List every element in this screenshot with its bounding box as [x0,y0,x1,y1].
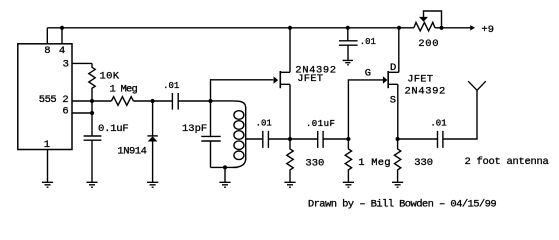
wire Q1 drain to rail [289,28,291,73]
wire cap to tank junction [178,100,210,102]
rheostat wiper arrow [424,11,442,28]
svg-text:1 Meg: 1 Meg [110,84,138,96]
svg-text:2: 2 [62,94,68,106]
wire antenna [443,90,477,139]
wire pin 4 to V+ rail [61,28,63,44]
svg-text:Drawn by – Bill Bowden – 04/15: Drawn by – Bill Bowden – 04/15/99 [308,199,496,211]
svg-text:1N914: 1N914 [117,146,146,158]
inductor L1 [211,101,246,108]
junction tank ground [223,165,227,169]
svg-text:13pF: 13pF [182,123,207,135]
+9 supply arrow [470,25,475,30]
svg-text:S: S [390,94,396,106]
resistor R3 330 [287,139,293,182]
svg-text:200: 200 [418,38,439,50]
ground (1N914) [147,182,158,187]
ground (bypass cap) [343,60,353,64]
wire V+ rail [47,27,414,29]
node tank junction [208,99,212,103]
svg-text:10K: 10K [100,71,120,83]
svg-text:2 foot antenna: 2 foot antenna [465,156,549,168]
antenna [468,81,486,90]
svg-text:.01: .01 [256,119,272,129]
wire pin 6 [72,112,92,114]
svg-text:0.1uF: 0.1uF [98,123,129,135]
junction Q1 source node [288,137,292,141]
wire pin 3 [72,62,92,64]
ground (330 #1) [284,182,295,187]
ground (330 #2) [392,182,403,187]
diode D1 1N914 [152,101,154,136]
wire coil tap [246,138,262,140]
wire Q2 gate [348,80,383,139]
junction 10K / pin 2 [90,99,94,103]
wire Q2 drain to rail [398,28,400,73]
svg-text:555: 555 [39,94,57,106]
capacitor C3 13pF [201,101,220,167]
ground (pin 1) [42,182,53,187]
svg-text:.01: .01 [360,37,376,47]
capacitor C5 .01uF [290,131,348,148]
junction pin4 / V+ rail [60,26,64,30]
resistor 200 (rheostat body) [414,22,435,31]
resistor R5 330 [394,139,400,182]
capacitor C6 .01 bypass [339,28,358,61]
svg-text:1 Meg: 1 Meg [358,157,391,169]
capacitor C7 .01 antenna [438,131,443,148]
wire rail to +9 [435,27,470,29]
wire Q2 source node to antenna cap [398,138,437,140]
svg-text:330: 330 [305,158,324,170]
wire pin 1 to ground [47,150,49,183]
svg-text:JFET: JFET [407,73,433,85]
svg-text:2N4392: 2N4392 [405,86,446,98]
svg-text:.01: .01 [163,81,179,91]
svg-text:.01: .01 [430,118,446,128]
IC U1 555 timer body [18,44,72,150]
junction pin 6 tie [90,111,94,115]
wire tank junction to Q1 gate [211,80,274,101]
wire pin 8 to V+ rail [46,28,48,44]
capacitor C2 0.1uF [84,136,102,140]
wire tap cap to Q1 source node [269,138,290,140]
wire tank bottom rail [211,166,238,168]
resistor R2 1 Meg [111,97,133,106]
svg-text:1: 1 [44,139,50,151]
svg-text:4: 4 [59,45,65,57]
capacitor C4 .01 tap [263,131,269,148]
transistor Q2 2N4392 [383,76,388,83]
ground (tank) [219,167,230,187]
wire pin 2 [72,100,111,102]
resistor R1 10K [89,63,95,101]
junction gate bias node [346,137,350,141]
svg-text:6: 6 [62,106,68,118]
junction bypass cap / rail [346,26,350,30]
transistor Q1 2N4392 [274,76,279,83]
wire Q1 source down [289,84,291,139]
capacitor C1 .01 coupling [172,93,178,110]
svg-text:.01uF: .01uF [306,119,336,129]
ground (1 Meg) [343,182,354,187]
wire Q2 source down [397,84,399,139]
svg-text:G: G [365,68,371,80]
svg-text:+9: +9 [481,24,494,36]
wire down to 0.1uF [91,101,93,136]
junction Q1 drain / rail [288,26,292,30]
resistor R4 1 Meg [345,139,351,182]
wire 1 Meg to coupling cap [133,100,172,102]
svg-text:D: D [390,62,396,74]
junction Q2 drain / rail [397,26,401,30]
svg-text:3: 3 [63,59,69,71]
wire 0.1uF to ground [91,140,93,182]
ground (0.1uF) [86,182,97,187]
wire diode to ground [152,142,154,183]
svg-text:JFET: JFET [297,73,323,85]
junction diode node [151,99,155,103]
junction Q2 source node [396,137,400,141]
junction wiper / rail [439,26,443,30]
svg-text:8: 8 [44,45,50,57]
svg-text:330: 330 [414,157,433,169]
